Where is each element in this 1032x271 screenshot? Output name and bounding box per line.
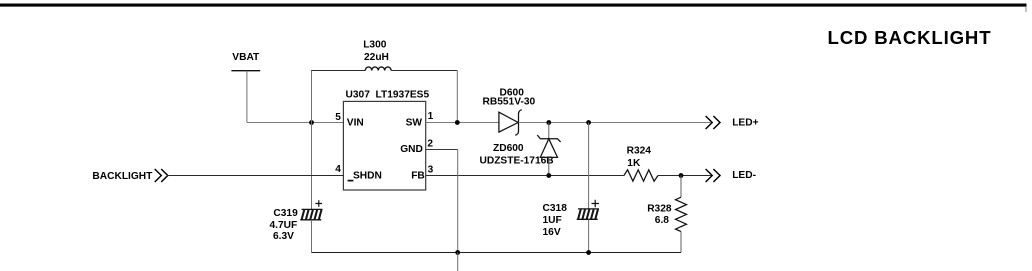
svg-text:R328: R328 — [647, 204, 672, 215]
diode D600 (Schottky) — [499, 110, 522, 136]
node R328 top junction — [679, 173, 684, 178]
wire VBAT to VIN — [247, 122, 344, 124]
sheet top border bar — [0, 4, 1027, 7]
wire C318 top leg (crosses FB wire) — [588, 123, 590, 209]
svg-text:SHDN: SHDN — [353, 170, 382, 181]
wire C318 bottom to ground rail — [588, 219, 590, 252]
wire L300 right leg down to SW — [456, 70, 458, 123]
wire diode cathode to LED+ — [519, 122, 713, 124]
svg-text:LED-: LED- — [732, 170, 756, 181]
svg-text:C319: C319 — [273, 208, 298, 219]
chevron BACKLIGHT — [155, 169, 168, 182]
svg-text:6.8: 6.8 — [655, 215, 669, 226]
svg-text:16V: 16V — [543, 227, 561, 238]
wire R324 to LED- — [658, 175, 712, 177]
node SW junction — [455, 120, 460, 125]
inductor L300 — [312, 40, 458, 71]
svg-text:6.3V: 6.3V — [273, 231, 294, 242]
svg-text:1K: 1K — [627, 158, 641, 169]
svg-text:VBAT: VBAT — [232, 52, 260, 63]
svg-text:ZD600: ZD600 — [493, 143, 524, 154]
svg-text:R324: R324 — [627, 146, 652, 157]
svg-text:FB: FB — [411, 170, 425, 181]
svg-text:RB551V-30: RB551V-30 — [483, 96, 536, 107]
svg-text:2: 2 — [427, 139, 433, 150]
resistor R328 — [676, 176, 687, 253]
svg-text:BACKLIGHT: BACKLIGHT — [92, 171, 153, 182]
zener diode ZD600 — [537, 123, 560, 176]
capacitor C318 (polarized) — [577, 200, 599, 220]
svg-text:SW: SW — [406, 117, 423, 128]
wire GND pin L-shape down — [426, 149, 458, 151]
svg-text:3: 3 — [428, 165, 434, 176]
svg-text:GND: GND — [400, 144, 423, 155]
svg-text:U307 LT1937ES5: U307 LT1937ES5 — [346, 90, 430, 101]
svg-text:5: 5 — [335, 112, 341, 123]
svg-text:LCD BACKLIGHT: LCD BACKLIGHT — [828, 27, 992, 48]
wire SW to diode — [426, 122, 499, 124]
node VIN junction — [309, 120, 314, 125]
svg-text:4: 4 — [335, 164, 341, 175]
node zener bottom junction — [546, 173, 551, 178]
wire ground rail — [312, 252, 682, 254]
chevron LED- — [706, 169, 720, 182]
wire VBAT down — [246, 71, 248, 123]
IC U307 box — [343, 101, 425, 190]
sheet right border stub — [1025, 7, 1027, 13]
wire BACKLIGHT to _SHDN — [167, 175, 343, 177]
svg-text:1UF: 1UF — [543, 215, 562, 226]
wire GND stub to sheet bottom — [457, 253, 459, 271]
svg-text:L300: L300 — [363, 40, 387, 51]
wire C319 bottom to ground rail — [311, 220, 313, 253]
svg-text:C318: C318 — [543, 203, 568, 214]
svg-text:1: 1 — [428, 111, 434, 122]
node GND rail junction 1 — [455, 250, 460, 255]
resistor R324 — [624, 170, 658, 181]
svg-text:LED+: LED+ — [732, 117, 758, 128]
svg-text:22uH: 22uH — [364, 52, 389, 63]
node GND rail junction 2 — [586, 250, 591, 255]
svg-text:4.7UF: 4.7UF — [270, 220, 298, 231]
svg-text:VIN: VIN — [347, 117, 364, 128]
wire VIN vertical (L300 left leg down to C319) — [311, 70, 313, 209]
wire FB / LED- net — [426, 175, 624, 177]
capacitor C319 (polarized) — [300, 200, 322, 220]
chevron LED+ — [706, 116, 720, 129]
power symbol VBAT — [231, 52, 260, 71]
node zener top junction — [546, 120, 551, 125]
node C318 top junction — [586, 120, 591, 125]
